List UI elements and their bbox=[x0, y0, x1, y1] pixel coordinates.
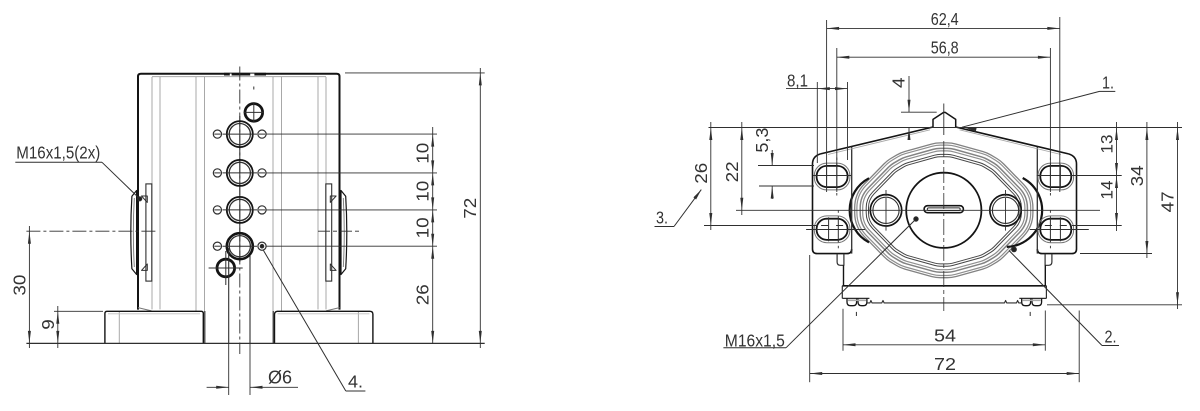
svg-text:3.: 3. bbox=[656, 208, 668, 228]
svg-text:34: 34 bbox=[1127, 165, 1147, 186]
svg-text:8,1: 8,1 bbox=[787, 70, 808, 90]
center hole lines bbox=[229, 248, 250, 343]
mounting slot lower-left bbox=[806, 210, 865, 248]
flange left plate bbox=[142, 184, 152, 281]
ground line bbox=[26, 342, 484, 344]
svg-text:56,8: 56,8 bbox=[931, 38, 959, 58]
right view horizontal centerline bbox=[736, 209, 1100, 211]
tab boundary lines bbox=[852, 147, 1038, 254]
tab lower foot left bbox=[837, 254, 844, 265]
top pilot centerline dot bbox=[253, 87, 255, 90]
port P3 right screw bbox=[258, 206, 266, 214]
flange right plate bbox=[326, 184, 336, 281]
flange centerline left bbox=[26, 230, 156, 232]
base block left bbox=[105, 311, 203, 343]
top chamfer gray lines bbox=[828, 130, 1061, 155]
dim 62,4 bbox=[827, 9, 1060, 192]
port P3 left screw bbox=[213, 206, 221, 214]
mounting slot upper-left bbox=[813, 158, 851, 196]
port P3 bbox=[223, 197, 258, 223]
label M16x1,5(2x) bbox=[15, 143, 141, 201]
flange centerline right bbox=[318, 230, 362, 232]
dim 5,3 bbox=[752, 128, 814, 199]
base block right bbox=[275, 311, 373, 343]
right body outline edges bbox=[813, 127, 1077, 254]
label 1. bbox=[962, 73, 1115, 132]
port P1 left screw bbox=[213, 130, 221, 138]
center slot bbox=[924, 206, 963, 213]
label 3. bbox=[655, 190, 702, 228]
svg-text:4.: 4. bbox=[348, 372, 363, 392]
svg-text:4: 4 bbox=[889, 77, 909, 88]
svg-text:2.: 2. bbox=[1105, 327, 1117, 347]
body lower side edges bbox=[844, 265, 1046, 286]
svg-text:22: 22 bbox=[722, 161, 742, 182]
svg-text:54: 54 bbox=[934, 325, 956, 345]
dim 26 bbox=[691, 122, 818, 230]
dim 22 bbox=[722, 122, 744, 215]
dim 72 line bbox=[479, 68, 482, 348]
dim 47 bbox=[1047, 122, 1182, 309]
dim 30 line bbox=[28, 226, 31, 348]
dim phi6 bbox=[207, 343, 298, 395]
svg-text:26: 26 bbox=[691, 163, 711, 184]
svg-text:Ø6: Ø6 bbox=[268, 367, 292, 387]
top locating bump bbox=[933, 112, 956, 127]
label 2. bbox=[1009, 247, 1119, 347]
left body base chamfers bbox=[138, 308, 340, 311]
tab lower foot right bbox=[1045, 254, 1052, 265]
svg-text:72: 72 bbox=[934, 354, 956, 374]
body vertical centerline bbox=[239, 67, 241, 355]
dim 13 14 bbox=[1072, 122, 1122, 231]
port P2 right screw bbox=[258, 169, 266, 177]
dim 72 bottom bbox=[810, 255, 1079, 382]
port P4 bbox=[223, 233, 258, 259]
svg-text:10: 10 bbox=[413, 142, 433, 163]
dim 8,1 bbox=[786, 70, 848, 163]
port P4 left screw bbox=[213, 242, 221, 250]
ports vertical axis line bbox=[239, 116, 241, 262]
dim 54 bbox=[843, 309, 1045, 351]
label M16x1,5 bbox=[723, 217, 918, 351]
flange right arc plate bbox=[341, 191, 347, 275]
flange left arc plate bbox=[131, 191, 137, 275]
svg-text:26: 26 bbox=[413, 284, 433, 305]
dimension chain line bbox=[431, 127, 434, 343]
svg-text:62,4: 62,4 bbox=[931, 9, 959, 29]
left view body outline bbox=[138, 74, 340, 310]
main bore circle bbox=[906, 173, 981, 248]
gasket seal contours bbox=[855, 143, 1033, 278]
dim 72 extension top bbox=[345, 72, 485, 74]
svg-text:47: 47 bbox=[1158, 191, 1178, 212]
label 4. bbox=[264, 251, 366, 392]
port circle right bbox=[990, 190, 1021, 231]
svg-text:13: 13 bbox=[1099, 135, 1117, 154]
port P1 bbox=[223, 121, 258, 147]
bottom feet profile bbox=[842, 286, 1046, 306]
port P2 bbox=[223, 160, 258, 186]
dim 9 line bbox=[56, 306, 59, 348]
dim 34 bbox=[1080, 122, 1152, 258]
feet center ticks bbox=[856, 312, 1030, 316]
svg-text:9: 9 bbox=[38, 319, 58, 330]
svg-text:M16x1,5: M16x1,5 bbox=[725, 331, 785, 351]
left body panel edge lines bbox=[152, 77, 326, 311]
bottom pilot hole bbox=[209, 251, 243, 285]
boss bold arc left bbox=[850, 178, 869, 242]
svg-text:72: 72 bbox=[460, 198, 480, 219]
svg-text:30: 30 bbox=[9, 274, 29, 295]
boss bold arc right bbox=[1007, 178, 1042, 247]
svg-text:5,3: 5,3 bbox=[752, 128, 772, 153]
svg-text:10: 10 bbox=[413, 181, 433, 202]
svg-text:M16x1,5(2x): M16x1,5(2x) bbox=[16, 143, 100, 163]
svg-text:10: 10 bbox=[413, 217, 433, 238]
port circle left bbox=[870, 190, 901, 231]
port P4 right screw bbox=[258, 242, 266, 250]
dim 4 bbox=[889, 76, 937, 140]
port P2 left screw bbox=[213, 169, 221, 177]
dim 9 extension bbox=[54, 310, 103, 312]
port dimension extension lines bbox=[267, 134, 438, 246]
mounting slot upper-right bbox=[1037, 158, 1075, 196]
port P1 right screw bbox=[258, 130, 266, 138]
top reference extension line bbox=[709, 127, 1183, 129]
top pilot hole bbox=[244, 102, 265, 122]
right view vertical centerline bbox=[943, 104, 945, 312]
dim 56,8 bbox=[837, 38, 1051, 192]
svg-text:1.: 1. bbox=[1102, 73, 1114, 93]
left body center columns bbox=[205, 311, 273, 343]
mounting slot lower-right bbox=[1030, 210, 1089, 248]
svg-text:14: 14 bbox=[1099, 181, 1117, 200]
left body top dark band bbox=[224, 73, 266, 76]
left body top inner line bbox=[152, 76, 326, 78]
